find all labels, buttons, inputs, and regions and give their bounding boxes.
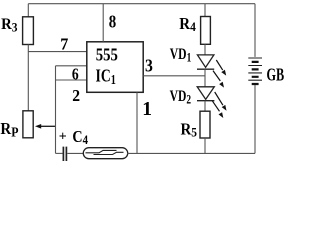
- wire pin 2: [56, 79, 87, 81]
- wire pin 8: [102, 4, 104, 42]
- battery GB plates: [248, 58, 262, 80]
- wire R3 bottom to RP: [27, 45, 29, 111]
- LED VD1: [197, 55, 214, 67]
- svg-text:VD1: VD1: [170, 45, 191, 64]
- op-amp U1 555 IC box: [87, 42, 143, 93]
- svg-text:C4: C4: [72, 128, 88, 148]
- svg-text:RP: RP: [0, 120, 18, 140]
- LED VD1 arrows: [216, 60, 222, 70]
- reed switch capsule: [83, 148, 127, 159]
- LED VD2: [197, 87, 214, 100]
- wire R5 bottom: [204, 138, 206, 153]
- svg-text:+: +: [59, 130, 67, 145]
- wire pin 7: [28, 51, 87, 53]
- wire rail node 2-6 vertical: [55, 66, 57, 154]
- wire battery top: [254, 4, 256, 57]
- wire bottom left from rail to capacitor: [56, 152, 63, 154]
- svg-text:1: 1: [142, 99, 152, 120]
- svg-text:2: 2: [72, 85, 80, 105]
- svg-text:3: 3: [145, 56, 153, 76]
- wire R4 to VD1: [204, 44, 206, 55]
- wire capacitor to switch: [67, 152, 84, 154]
- wire pin 6: [56, 65, 87, 67]
- svg-text:6: 6: [72, 65, 79, 84]
- svg-text:R5: R5: [181, 121, 198, 140]
- potentiometer RP: [23, 111, 33, 138]
- resistor R3: [23, 17, 34, 45]
- wire VD1 to VD2: [204, 69, 206, 87]
- svg-text:555: 555: [96, 44, 118, 65]
- svg-text:R4: R4: [179, 15, 196, 34]
- wire pin 1: [136, 92, 138, 153]
- wire bottom main: [127, 152, 255, 154]
- capacitor C4: [63, 147, 66, 161]
- svg-text:7: 7: [60, 34, 68, 53]
- wire pin 3: [143, 75, 205, 77]
- wire VD2 to R5: [204, 101, 206, 112]
- LED VD2 arrows: [215, 92, 223, 105]
- resistor R4: [201, 17, 211, 45]
- svg-text:R3: R3: [1, 15, 17, 34]
- wire top rail: [28, 3, 255, 5]
- wire battery bottom: [254, 85, 256, 153]
- reed switch blades: [86, 150, 117, 152]
- wiper arrow RP: [39, 125, 56, 127]
- svg-text:VD2: VD2: [170, 87, 192, 106]
- wire R3 top: [27, 4, 29, 17]
- svg-text:GB: GB: [267, 66, 285, 85]
- wire R4 top: [204, 4, 206, 17]
- svg-text:8: 8: [109, 13, 116, 32]
- resistor R5: [200, 111, 210, 138]
